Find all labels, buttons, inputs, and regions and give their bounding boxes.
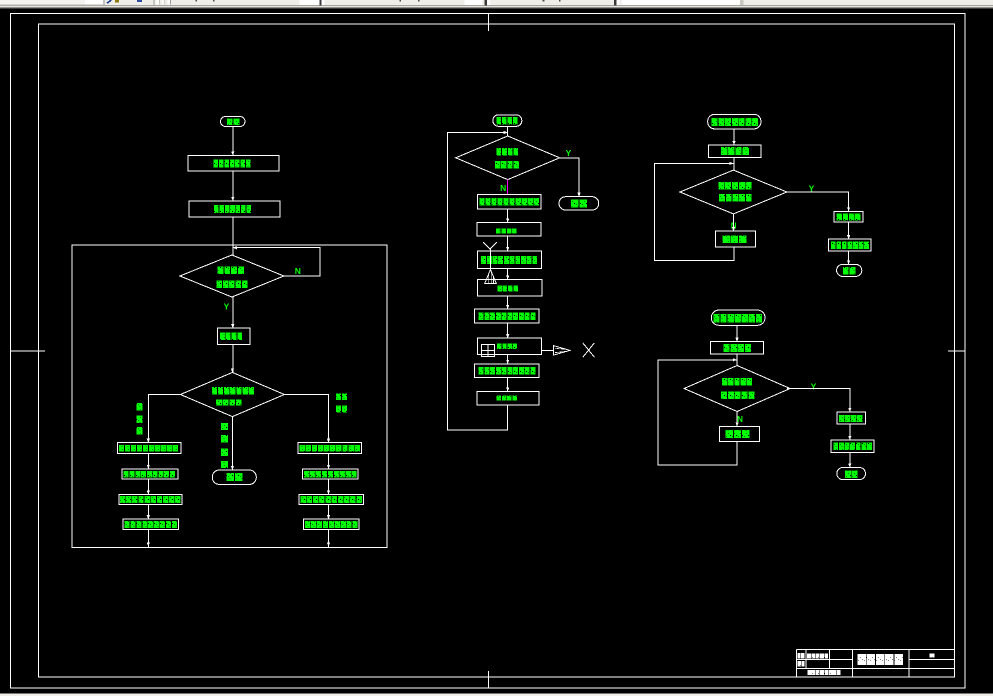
decision diamond: 判断样本是否金属材质	[180, 372, 284, 416]
arrowhead into 向右走 box (F3)	[732, 227, 735, 231]
wire M7->M8	[507, 378, 509, 392]
wire diamond1->delay box	[232, 297, 234, 328]
title block label cell texts (small)	[798, 653, 829, 667]
status bar sliver at bottom	[0, 694, 993, 696]
arrowhead into M5	[506, 305, 509, 309]
label Y (diamond1 down)	[224, 302, 230, 312]
process box: 向下走100步 (F4)	[831, 440, 874, 452]
process box: T0定时器初始化	[188, 156, 279, 172]
arrowhead into move box (F4)	[848, 436, 851, 440]
label N (middle diamond)	[500, 183, 506, 193]
wire terminal->serial box (F3)	[733, 129, 735, 145]
wire move box->end terminal (F4)	[849, 452, 851, 467]
arrowhead into box R3	[327, 490, 330, 494]
terminal: 结束 (middle)	[559, 197, 599, 210]
arrowhead into move box (F3)	[847, 235, 850, 239]
arrowhead into middle end terminal	[577, 193, 580, 197]
toolbar combobox 3	[465, 0, 490, 5]
label N (F3)	[731, 222, 737, 231]
loop return path (F3)	[655, 163, 734, 260]
centering tick top	[488, 14, 490, 32]
arrowhead into serial box (F3)	[732, 141, 735, 145]
process box R1	[298, 443, 361, 454]
wire diamond2 right branch	[284, 395, 329, 443]
wire diamond1 N branch back to top	[233, 248, 320, 276]
arrowhead into end terminal (F3)	[847, 260, 850, 264]
wire delay->move box (F3)	[848, 222, 850, 239]
wire diamond Y branch (F3)	[787, 192, 849, 211]
arrowhead into box R2	[327, 465, 330, 469]
terminal: 开始 (start)	[221, 117, 246, 127]
label Y (middle diamond)	[566, 148, 572, 158]
wire M3->M4	[507, 269, 509, 280]
process box R2: 机械手向上走800步	[303, 469, 359, 479]
toolbar combobox 2	[300, 0, 325, 5]
wire diamond->M1 (magenta)	[507, 180, 509, 195]
arrowhead into M6	[506, 334, 509, 338]
leader line with hollow right arrow	[541, 346, 570, 356]
arrowhead loop junction (F4)	[733, 358, 737, 361]
toolbar grip handles	[156, 0, 171, 5]
arrowhead into delay box (F3)	[847, 207, 850, 211]
process box L4	[123, 519, 179, 529]
svg-text:N: N	[500, 183, 506, 193]
centering tick right	[948, 350, 965, 352]
X mark annotation	[583, 343, 595, 357]
arrowhead into M3	[506, 247, 509, 251]
wire diamond2 left branch	[148, 395, 180, 443]
wire R2->R3	[328, 479, 330, 495]
wire terminal->serial box (F4)	[736, 325, 738, 341]
wire box1->box2	[232, 171, 234, 201]
terminal: Y轴基准定位函数	[711, 310, 765, 325]
arrowhead into box L4	[147, 515, 150, 519]
svg-text:Y: Y	[566, 148, 572, 158]
wire start->box1	[232, 127, 234, 156]
label Y (F3)	[809, 184, 815, 194]
arrowhead N branch junction	[233, 246, 237, 249]
process box: 延时1秒	[217, 328, 250, 344]
decision diamond: 判断是否接触限位开关 (F3)	[680, 170, 787, 214]
wire M6->M7	[507, 355, 509, 364]
process box: T1定时器初始化	[189, 201, 280, 217]
process box M3: 向数据口送控制字d2	[477, 251, 541, 269]
loop return path (F4)	[658, 360, 737, 465]
process box R3	[299, 494, 363, 504]
decision diamond: 接收是否有数据到来	[180, 255, 284, 297]
arrowhead into diamond2	[231, 368, 234, 372]
wire delay->move box (F4)	[849, 424, 851, 440]
title block scale text 1:1	[930, 653, 935, 657]
arrowhead into box L2	[147, 465, 150, 469]
wire diamond-> end terminal (middle)	[560, 158, 579, 197]
toolbar icon: olive dot	[115, 0, 119, 2]
toolbar combobox 4	[614, 0, 744, 5]
label N (F4)	[737, 415, 743, 424]
decision diamond: 判断是否接触限位开关 (F4)	[684, 366, 790, 412]
centering tick bottom	[488, 671, 490, 688]
svg-text:Y: Y	[224, 302, 230, 312]
process box L2: 机械手向上走800步	[122, 469, 178, 479]
arrowhead into M2	[506, 219, 509, 223]
stray 2x2 square grid marker at M6	[482, 344, 495, 356]
arrowhead into M8	[506, 388, 509, 392]
process box: 接收串口 (F4)	[710, 342, 763, 354]
terminal: 结束 (F4)	[837, 468, 866, 480]
wire R3->R4	[328, 504, 330, 519]
arrowhead into delay box (F4)	[848, 408, 851, 412]
process box L3	[119, 494, 182, 504]
arrowhead into box R1	[327, 439, 330, 443]
wire terminal->diamond (middle)	[507, 126, 509, 136]
toolbar combobox 1 (white field)	[0, 0, 103, 5]
label N (diamond1 right branch)	[295, 266, 301, 276]
arrowhead into box L1	[147, 439, 150, 443]
process box M7: 向数据口送控制字d4	[475, 364, 540, 378]
process box: 延时1秒 (F4)	[837, 412, 866, 424]
process box M5: 向数据口送控制字d3	[475, 309, 539, 323]
terminal: X轴基准定位函数	[708, 114, 761, 129]
wire serial box->diamond (F3)	[733, 157, 735, 170]
terminal: 结束 (F3)	[837, 264, 862, 276]
process box: 延时1秒 (F3)	[834, 211, 863, 222]
wire move box->end terminal (F3)	[848, 251, 850, 264]
toolbar divider 2	[152, 0, 155, 5]
wire M1->M2	[507, 209, 509, 223]
svg-text:N: N	[295, 266, 301, 276]
process box L1	[118, 443, 182, 454]
label 不是金属 (right branch)	[336, 393, 347, 412]
toolbar tick marks c	[543, 0, 561, 1]
wire L1->L2	[147, 453, 149, 469]
process box M6: 延时2ms	[478, 338, 542, 354]
arrowhead into box1	[231, 152, 234, 156]
wire R1->R2	[328, 453, 330, 469]
arrowhead into M7	[506, 360, 509, 364]
toolbar icon: navy pencil	[107, 0, 111, 3]
arrowhead into box L3	[147, 490, 150, 494]
wire M2->M3	[507, 236, 509, 251]
stray open chevron arrow below M2	[483, 242, 497, 249]
wire serial box->diamond (F4)	[736, 354, 738, 366]
decision diamond: 判断参数是否完整	[456, 136, 560, 180]
label 否则转下 (vertical)	[221, 423, 228, 468]
terminal: 中断函数 (middle flowchart start)	[493, 115, 522, 127]
arrowhead into box R4	[327, 515, 330, 519]
title block school name text	[808, 670, 841, 675]
arrowhead into 向上走 box (F4)	[736, 422, 739, 426]
toolbar tick marks b	[400, 0, 420, 1]
wire diamond Y branch (F4)	[787, 389, 850, 413]
svg-text:Y: Y	[811, 382, 817, 392]
loop return rectangle (left flowchart)	[72, 245, 387, 547]
terminal: 结束 (left flowchart end)	[212, 470, 256, 484]
arrowhead loop into main line (middle)	[504, 131, 508, 134]
toolbar tick marks a	[196, 0, 215, 1]
arrowhead into end terminal	[231, 466, 234, 470]
title block main title: 程序流程图	[857, 654, 903, 665]
arrowhead L column into loop	[147, 543, 150, 547]
toolbar strip background	[0, 0, 993, 9]
process box M4: 延时2ms	[477, 279, 542, 296]
arrowhead into M4	[506, 275, 509, 279]
process box M8: 延时2ms	[477, 392, 539, 405]
wire M5->M6	[507, 323, 509, 338]
process box M2: 延时2ms	[477, 223, 541, 237]
process box M1: 向数据口送控制字d1	[477, 194, 540, 209]
stray vertical annotation line	[490, 249, 492, 283]
wire box2->diamond1	[232, 217, 234, 255]
wire L4->bottom loop line	[147, 529, 149, 547]
arrowhead R column into loop	[327, 543, 330, 547]
label 是金属 (vertical, left branch)	[137, 403, 143, 434]
loop return path (middle flowchart)	[447, 133, 507, 430]
arrowhead into serial box (F4)	[735, 338, 738, 342]
title block grid	[796, 650, 954, 678]
process box: 向上走 (F4)	[720, 426, 760, 441]
wire diamond2 bottom -> end terminal	[231, 417, 233, 470]
arrowhead into delay box	[231, 324, 234, 328]
wire diamond N branch down (F4)	[736, 412, 738, 426]
process box R4	[304, 519, 359, 529]
process box: 接收串口 (F3)	[709, 145, 761, 157]
wire M4->M5	[507, 296, 509, 309]
process box: 向左走100步 (F3)	[829, 239, 872, 251]
wire diamond N branch down (F3)	[733, 214, 735, 231]
hollow up-arrow annotation under M3	[485, 270, 497, 284]
arrowhead into box2	[231, 197, 234, 201]
toolbar icon: blue glyph	[137, 0, 142, 2]
arrowhead into end terminal (F4)	[848, 464, 851, 468]
process box: 向右走 (F3)	[716, 231, 756, 247]
wire L2->L3	[147, 479, 149, 495]
wire L3->L4	[147, 504, 149, 519]
toolbar divider	[102, 0, 105, 5]
wire R4->bottom loop line	[328, 529, 330, 547]
arrowhead loop junction (F3)	[730, 162, 734, 165]
wire delay box->diamond2	[232, 344, 234, 372]
label Y (F4)	[811, 382, 817, 392]
centering tick left	[11, 350, 46, 352]
